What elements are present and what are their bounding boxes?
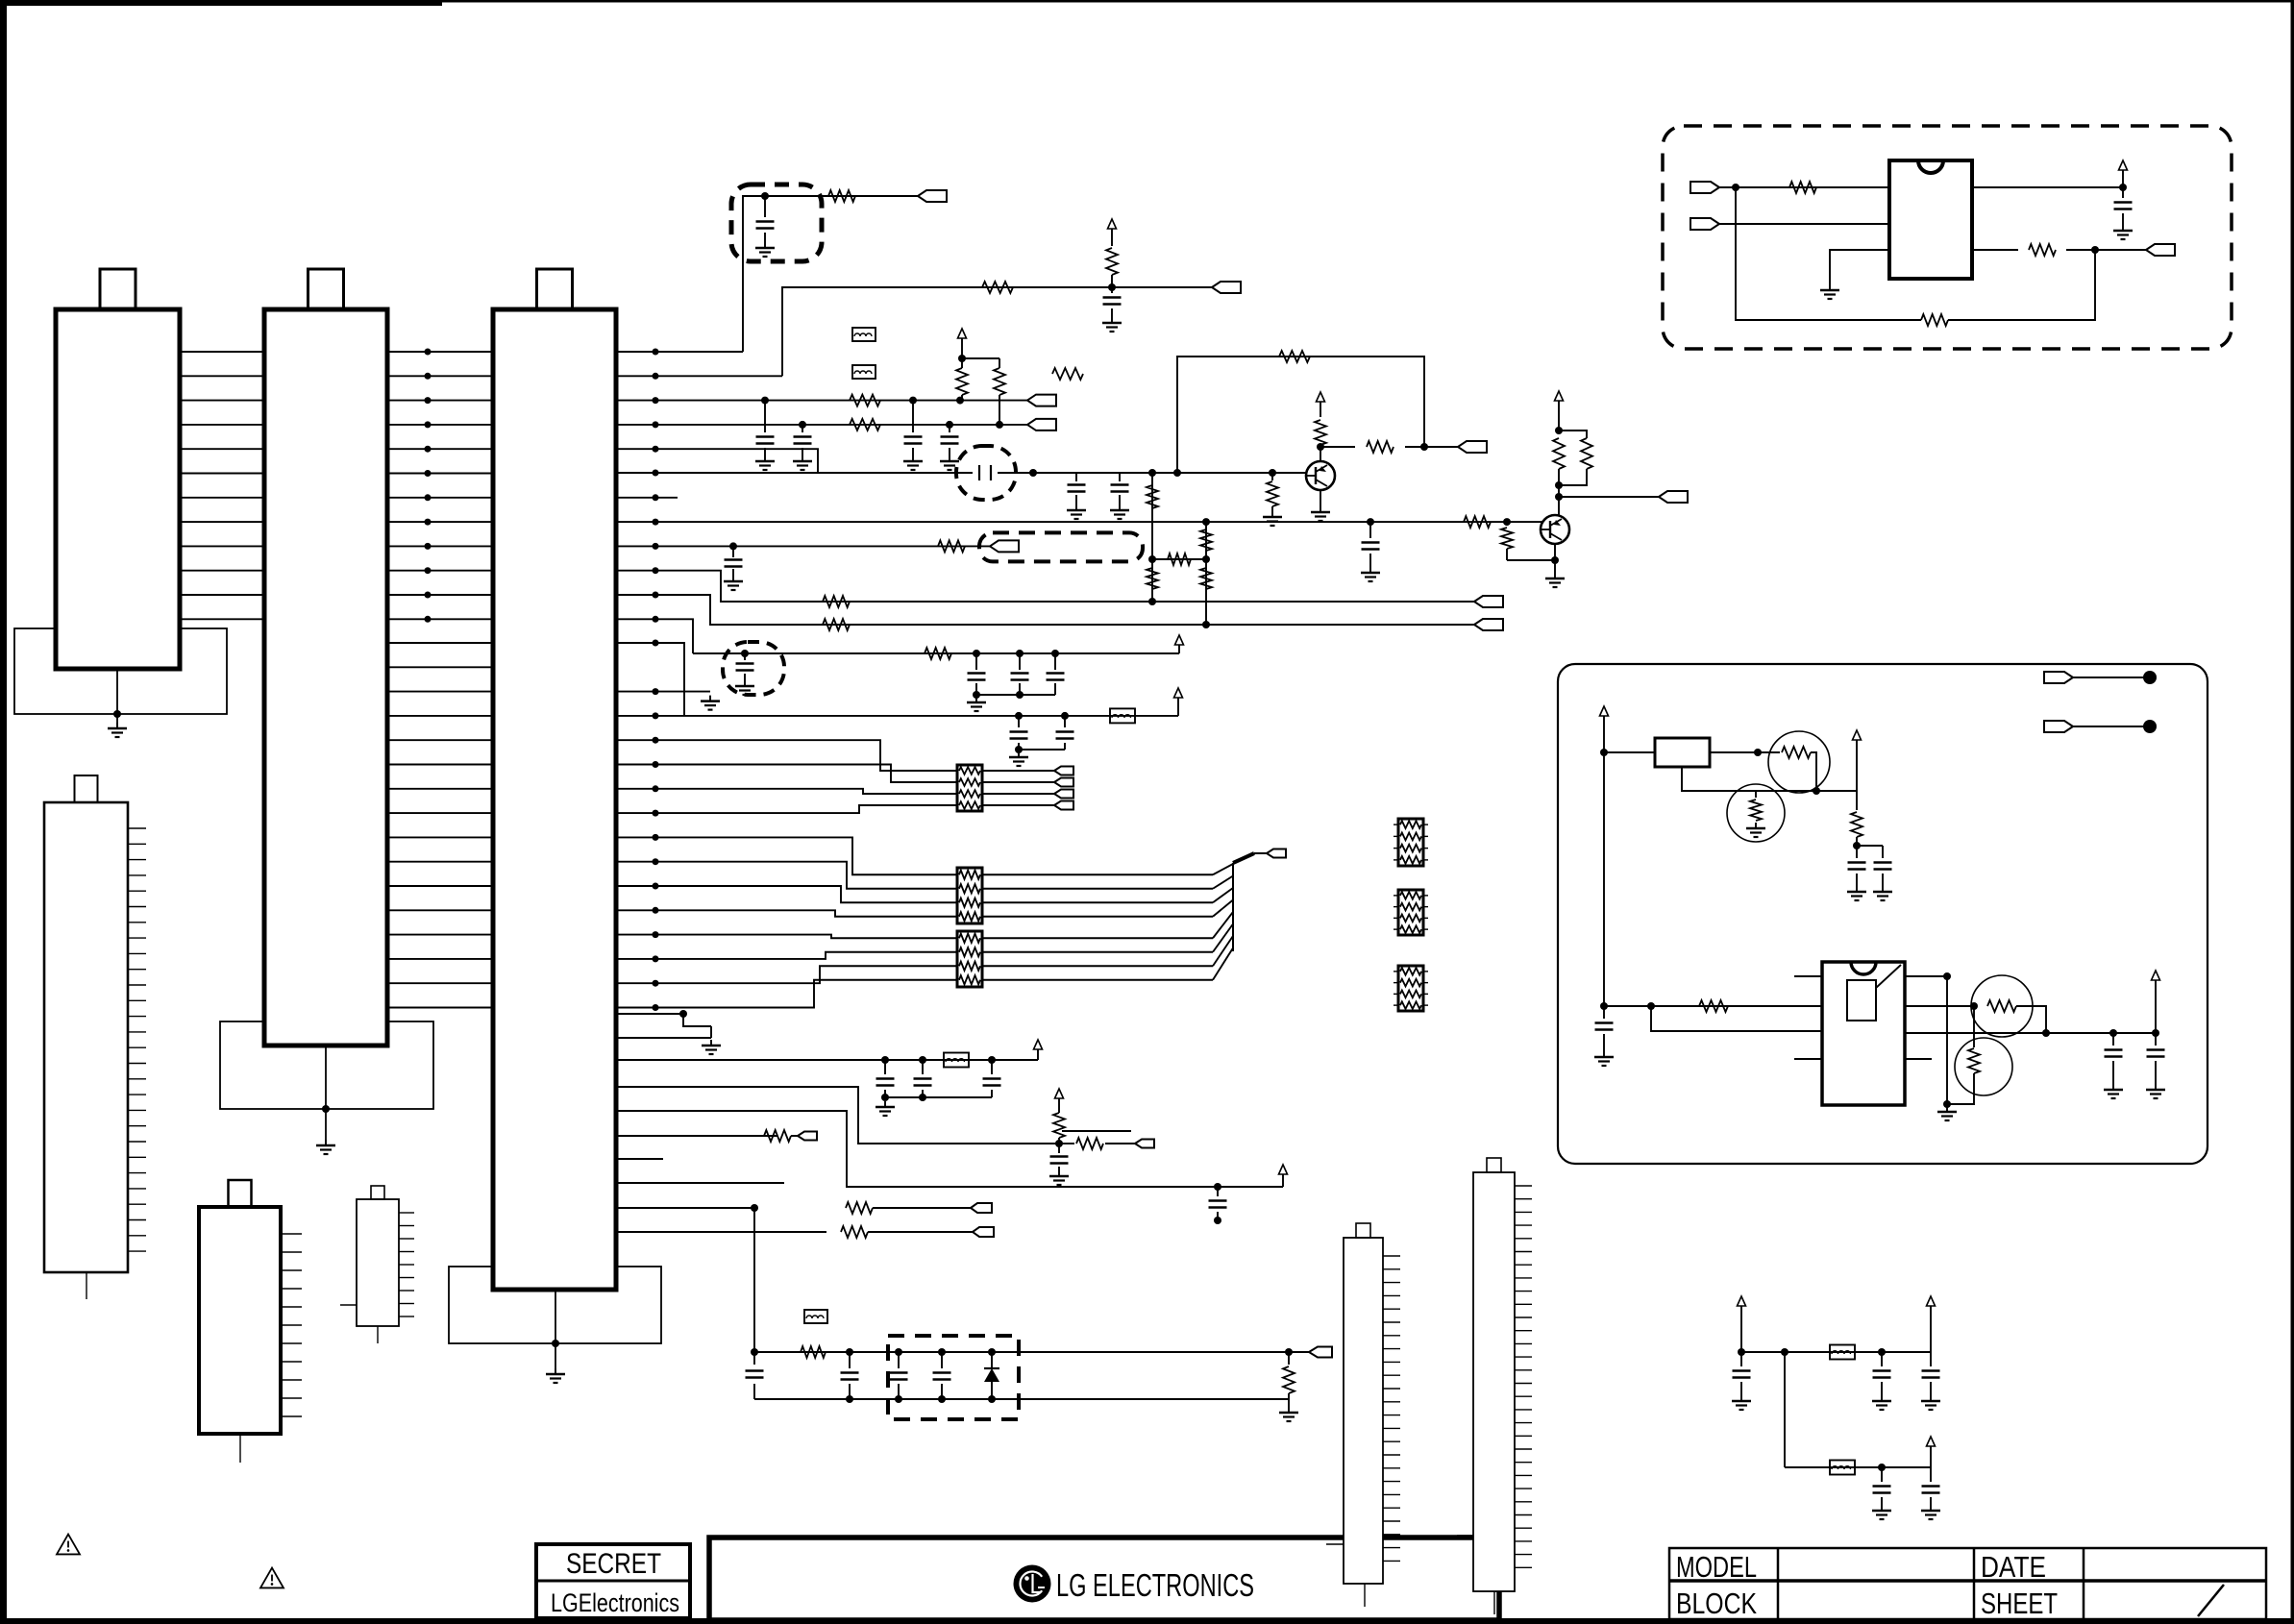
wire w11 bbox=[616, 595, 1474, 625]
wire U2 gnd bbox=[1830, 250, 1889, 284]
ic U3 bbox=[1822, 962, 1905, 1105]
wire r1206 bbox=[616, 1158, 663, 1160]
tag diode out bbox=[1289, 1351, 1309, 1353]
resistor Q1 pullup bbox=[1315, 420, 1326, 445]
capacitor on w4 a bbox=[802, 425, 803, 432]
wire U3 out2 bbox=[2016, 1006, 2046, 1033]
capacitor d0 bbox=[849, 1352, 851, 1368]
svg-text:BLOCK: BLOCK bbox=[1676, 1587, 1757, 1620]
wire rail bbox=[1603, 752, 1605, 1006]
power arrow B bbox=[1108, 219, 1117, 229]
capacitor r1131 bbox=[1058, 1144, 1060, 1153]
capacitor rb1 c bbox=[1054, 653, 1056, 670]
capacitor w5 b bbox=[1119, 473, 1121, 481]
tag w10 bbox=[1474, 596, 1503, 607]
block box bbox=[1558, 664, 2208, 1164]
tag bus bbox=[1254, 852, 1267, 854]
power arrow C3 bbox=[1927, 1437, 1936, 1446]
capacitor on w4 b bbox=[949, 425, 950, 432]
capacitor B3a bbox=[2112, 1033, 2114, 1046]
tag r1282 bbox=[973, 1227, 994, 1237]
component X1 bbox=[1604, 751, 1655, 753]
capacitor rail bbox=[1603, 1006, 1605, 1019]
capacitor w5 a bbox=[1075, 473, 1077, 481]
svg-text:SHEET: SHEET bbox=[1981, 1587, 2058, 1620]
wire bbox=[1364, 1584, 1366, 1607]
respack RP3 bbox=[957, 931, 982, 987]
resistor net2a bbox=[1200, 529, 1212, 551]
ground diode bbox=[1288, 1399, 1290, 1407]
capacitor r1156 bbox=[1217, 1187, 1219, 1196]
wire bbox=[239, 1434, 241, 1463]
resistor B2 bbox=[1856, 791, 1858, 810]
transistor Q1 bbox=[1306, 461, 1335, 490]
tag A bbox=[918, 190, 947, 202]
secret box bbox=[536, 1544, 690, 1618]
wire r1182 bbox=[616, 1135, 777, 1137]
wire vert net2 bbox=[1205, 522, 1207, 625]
capacitor B2b bbox=[1882, 846, 1884, 858]
power arrow r1103 bbox=[1034, 1040, 1043, 1049]
box under P2 bbox=[220, 1021, 433, 1109]
tag U2 in1 bbox=[1690, 182, 1719, 193]
U3 right pins bbox=[1905, 1058, 1932, 1060]
capacitor rb2 a bbox=[1018, 716, 1020, 727]
tag Q2 out bbox=[1659, 491, 1688, 503]
wire bbox=[116, 669, 118, 714]
capacitor B2a bbox=[1856, 846, 1858, 858]
wire node B bbox=[782, 287, 1212, 376]
tag U2 in2 bbox=[1690, 218, 1719, 230]
ground Q1 emitter bbox=[1320, 490, 1321, 506]
feedback loop bbox=[1177, 357, 1424, 473]
power arrow rb1 bbox=[1175, 635, 1184, 645]
capacitor rb1 a bbox=[975, 653, 977, 670]
connector P4 bbox=[44, 802, 128, 1272]
capacitor in dashed box bbox=[764, 196, 766, 217]
wire diode top bus bbox=[753, 1208, 755, 1352]
capacitor r1103 c bbox=[991, 1060, 993, 1074]
wire Q1 collector bbox=[1320, 447, 1321, 461]
wire Q2 collector bbox=[1558, 485, 1560, 516]
RP1 input wires bbox=[616, 740, 957, 771]
wire X1 out bbox=[1710, 751, 1780, 753]
wire U3 vert bbox=[1946, 976, 1948, 1104]
capacitor w8 bbox=[1369, 522, 1371, 538]
tag r1257 bbox=[971, 1203, 992, 1213]
power arrow Q2 bbox=[1555, 391, 1564, 401]
capacitor c1a bbox=[1740, 1352, 1742, 1366]
wire X1 bottom bbox=[1682, 767, 1816, 791]
wire U2 fb bbox=[1736, 187, 1921, 320]
RP3 input wires bbox=[616, 935, 957, 939]
wire r1131 bbox=[616, 1087, 1062, 1144]
wire net h bbox=[1152, 558, 1206, 560]
capacitor d2 bbox=[941, 1352, 943, 1368]
sheet slash bbox=[2198, 1585, 2224, 1616]
bead F1 bbox=[852, 328, 876, 341]
power arrow r1156 bbox=[1282, 1174, 1284, 1187]
wire r1231 bbox=[616, 1182, 784, 1184]
wire r1103 bbox=[616, 1059, 1038, 1061]
capacitor U2 bbox=[2122, 187, 2124, 198]
wire r1055 bbox=[616, 1013, 683, 1015]
wire bead1 bbox=[1741, 1351, 1931, 1353]
dashed diode box bbox=[888, 1336, 1019, 1419]
wire w10 bbox=[616, 571, 1474, 602]
wire bbox=[1493, 1591, 1495, 1614]
capacitor c1c bbox=[1930, 1352, 1932, 1366]
wire row720 bbox=[616, 691, 710, 693]
ground w9 branch bbox=[732, 546, 734, 557]
resistor net1b bbox=[1147, 568, 1158, 589]
RP2 input wires bbox=[616, 837, 957, 874]
capacitor on w3 a bbox=[764, 401, 766, 432]
wire row669 bbox=[616, 643, 684, 716]
connector P1 bbox=[56, 309, 180, 669]
wire U3 busline bbox=[1905, 1032, 2156, 1034]
respack RP5 bbox=[1398, 890, 1423, 935]
wire U3 topright bbox=[1905, 975, 1947, 977]
wire diode bottom bus bbox=[754, 1398, 1289, 1400]
wire Q2 base bbox=[1506, 522, 1508, 525]
wire U2 vcc bbox=[1972, 186, 2123, 188]
wire rb1 bbox=[693, 652, 1179, 654]
P7 left pin bbox=[1326, 1543, 1344, 1545]
label underline bbox=[1062, 1130, 1131, 1132]
wire U2 out bbox=[1972, 249, 2018, 251]
tag U2 out bbox=[2146, 244, 2175, 256]
wire w1 bbox=[616, 351, 743, 353]
connector P8 bbox=[1473, 1172, 1515, 1591]
P8 left pin bbox=[1457, 1535, 1473, 1537]
tag Q1 out bbox=[1458, 441, 1487, 453]
resistor net1a bbox=[1147, 485, 1158, 508]
box under P3 bbox=[449, 1267, 661, 1343]
resistor B bbox=[1106, 248, 1118, 275]
P8 pins bbox=[1515, 1185, 1532, 1187]
resistor in circle R_c bbox=[1987, 1000, 2016, 1012]
wire bbox=[555, 1290, 556, 1343]
resistor w6 bias bbox=[1271, 473, 1273, 480]
resistor in circle R_b bbox=[1755, 791, 1757, 798]
capacitor in dashed circle D2 bbox=[744, 653, 746, 660]
tag r1182 bbox=[798, 1132, 817, 1141]
wire r1257 bbox=[616, 1207, 754, 1209]
model table bbox=[1669, 1548, 2266, 1619]
power arrow Q1 bbox=[1317, 392, 1325, 402]
wire w3 bbox=[616, 400, 1027, 402]
warning triangle 2 bbox=[260, 1568, 284, 1588]
wire w8 bbox=[616, 521, 1542, 523]
svg-text:LG ELECTRONICS: LG ELECTRONICS bbox=[1056, 1567, 1254, 1603]
wire U2 in1 bbox=[1719, 186, 1889, 188]
capacitor rb1 b bbox=[1019, 653, 1021, 670]
wire rb1 bus bbox=[976, 694, 1055, 696]
output tag w3 bbox=[1027, 395, 1056, 406]
respack RP2 bbox=[957, 868, 982, 923]
wire X1 path bbox=[1811, 752, 1857, 791]
wire w6 bbox=[616, 472, 973, 474]
resistor diode bbox=[1288, 1352, 1290, 1365]
capacitor d1 bbox=[898, 1352, 900, 1368]
resistor Q2 b bbox=[1559, 431, 1587, 438]
wire r1131b bbox=[1062, 1143, 1074, 1144]
wire r1156 bbox=[616, 1111, 1283, 1187]
wire U3 out bbox=[1905, 1005, 1974, 1007]
power arrow B2 bbox=[1853, 730, 1862, 740]
power arrow C2 bbox=[1927, 1296, 1936, 1306]
P6 pins bbox=[399, 1212, 414, 1214]
tag w11 bbox=[1474, 619, 1503, 630]
wire w7 bbox=[616, 497, 678, 499]
power arrow rb2 bbox=[1174, 688, 1183, 698]
capacitor c1b bbox=[1881, 1352, 1883, 1366]
wire U3 in bbox=[1604, 1005, 1822, 1007]
respack RP1 bbox=[957, 765, 982, 811]
connector P6 bbox=[357, 1199, 399, 1326]
box under P1 bbox=[14, 628, 227, 714]
dashed pill box bbox=[979, 532, 1143, 561]
power arrow B1 bbox=[1600, 706, 1609, 716]
resistor pullup b bbox=[994, 368, 1005, 395]
wire Q2 emitter bbox=[1554, 544, 1556, 573]
capacitor c2a bbox=[1881, 1467, 1883, 1482]
wire U3 in2 bbox=[1651, 1006, 1822, 1031]
dashed box A bbox=[731, 185, 822, 261]
resistor in circle R_d bbox=[1973, 1006, 1975, 1047]
wire rb2 bus bbox=[1019, 749, 1065, 750]
bead F3 bbox=[804, 1310, 827, 1323]
dashed block box bbox=[1663, 126, 2232, 349]
wire vert net1 bbox=[1151, 473, 1153, 602]
lg box bbox=[709, 1538, 1499, 1620]
wire r1282 bbox=[616, 1231, 826, 1233]
P5 pins bbox=[281, 1233, 302, 1235]
bead F2 bbox=[852, 365, 876, 379]
wire w12 bbox=[616, 619, 693, 653]
bus wires P1-P2-P3 bbox=[180, 351, 264, 353]
output tag w4 bbox=[1027, 419, 1056, 431]
connector P5 bbox=[199, 1207, 281, 1434]
RP1 output tags bbox=[982, 770, 1054, 772]
resistor in circle R_a bbox=[1782, 747, 1811, 758]
tag S1 bbox=[2044, 672, 2073, 683]
wire r1080 bbox=[616, 1037, 711, 1039]
U3 left pins bbox=[1794, 975, 1822, 977]
tag w9 bbox=[990, 540, 1019, 552]
capacitor rb2 b bbox=[1064, 716, 1066, 727]
ic U2 bbox=[1889, 160, 1972, 279]
wire w9 bbox=[616, 545, 990, 547]
svg-text:MODEL: MODEL bbox=[1676, 1550, 1757, 1584]
respack RP6 bbox=[1398, 966, 1423, 1011]
wire w5 bbox=[616, 449, 818, 473]
wire diode left bbox=[753, 1352, 755, 1365]
capacitor r1103 b bbox=[922, 1060, 924, 1074]
connector P2 bbox=[264, 309, 387, 1046]
wire gnd pair bbox=[683, 1014, 711, 1026]
bus wires P2-P3 lower bbox=[387, 642, 493, 644]
P6 left pin bbox=[340, 1304, 357, 1306]
wire bead2 bbox=[1785, 1466, 1931, 1468]
capacitor on w3 b bbox=[912, 401, 914, 432]
wire w4 bbox=[616, 424, 1027, 426]
wire U2 in2 bbox=[1719, 223, 1889, 225]
wire bbox=[325, 1046, 327, 1109]
wire rb2 bbox=[616, 715, 1178, 717]
warning triangle 1 bbox=[57, 1535, 80, 1555]
wire node A bbox=[743, 196, 918, 352]
P4 pins bbox=[128, 827, 146, 829]
bus r1103 bbox=[885, 1096, 992, 1098]
bus vertical bbox=[1232, 863, 1234, 951]
wire bbox=[377, 1326, 379, 1343]
series capacitor C in dashed circle bbox=[978, 465, 980, 480]
tag S2 bbox=[2044, 721, 2073, 732]
capacitor r1103 a bbox=[884, 1060, 886, 1074]
diode D1 bbox=[991, 1352, 993, 1368]
svg-text:LGElectronics: LGElectronics bbox=[551, 1588, 679, 1617]
resistor net2b bbox=[1200, 568, 1212, 589]
capacitor B bbox=[1111, 287, 1113, 293]
wire w2 bbox=[616, 375, 782, 377]
wire bbox=[86, 1272, 87, 1299]
wire bead2 vert bbox=[1784, 1352, 1786, 1467]
P7 pins bbox=[1383, 1255, 1400, 1257]
power arrow U2 bbox=[2119, 160, 2128, 170]
capacitor B3b bbox=[2155, 1033, 2157, 1046]
connector P7 bbox=[1344, 1238, 1383, 1584]
power arrow B3 bbox=[2152, 971, 2160, 980]
power arrow r1131 bbox=[1055, 1089, 1064, 1098]
tag B bbox=[1212, 282, 1241, 293]
resistor Q2 a bbox=[1558, 431, 1560, 434]
resistor r1131 bbox=[1053, 1113, 1065, 1138]
respack RP4 bbox=[1398, 819, 1423, 866]
lg logo bbox=[1014, 1565, 1051, 1603]
power arrow C1 bbox=[1738, 1296, 1746, 1306]
power VCC pullups bbox=[958, 329, 967, 338]
transistor Q2 bbox=[1541, 515, 1569, 544]
svg-text:SECRET: SECRET bbox=[566, 1548, 661, 1580]
capacitor c2b bbox=[1930, 1467, 1932, 1482]
connector P3 bbox=[493, 309, 616, 1290]
svg-text:DATE: DATE bbox=[1981, 1550, 2046, 1584]
tag r1131 bbox=[1135, 1140, 1154, 1148]
wire B2b bbox=[1857, 845, 1883, 847]
ground bbox=[116, 714, 118, 723]
resistor pullup a bbox=[956, 368, 968, 395]
ground bbox=[555, 1343, 556, 1368]
bus merge wires bbox=[982, 874, 1213, 875]
resistor lone bbox=[1052, 368, 1083, 380]
ground bbox=[325, 1109, 327, 1140]
